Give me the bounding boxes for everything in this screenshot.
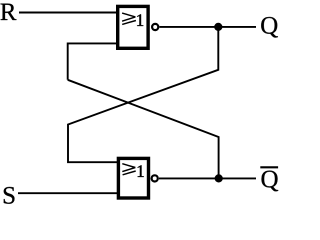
- nor-gate U1 (IEC box): [118, 6, 148, 48]
- label Q (output net Q): [261, 17, 278, 38]
- junction node Q-bar: [215, 174, 223, 182]
- wire Q feedback: down, diagonal, to U2 input 1: [68, 27, 218, 162]
- inverting bubble U1 output: [152, 24, 158, 30]
- label R (input net R): [1, 4, 17, 20]
- wire U1 output to Q: [159, 26, 256, 28]
- wire diagonal from U1 input 2 feedback down to Q-bar node vertical: [68, 80, 219, 179]
- nor-gate U2 (IEC box): [118, 158, 148, 198]
- inverting bubble U2 output: [152, 175, 158, 181]
- junction node Q: [214, 23, 222, 31]
- wire Q-bar feedback to U1 input 2 (horizontal + vertical at x=67.7): [68, 43, 117, 79]
- wire U2 output to Q-bar: [159, 177, 256, 179]
- label S (input net S): [4, 187, 15, 204]
- wire S to U2 input 2: [18, 192, 118, 194]
- label Q-bar (output net Q-bar): [260, 167, 278, 191]
- wire R to U1 input 1: [19, 12, 117, 14]
